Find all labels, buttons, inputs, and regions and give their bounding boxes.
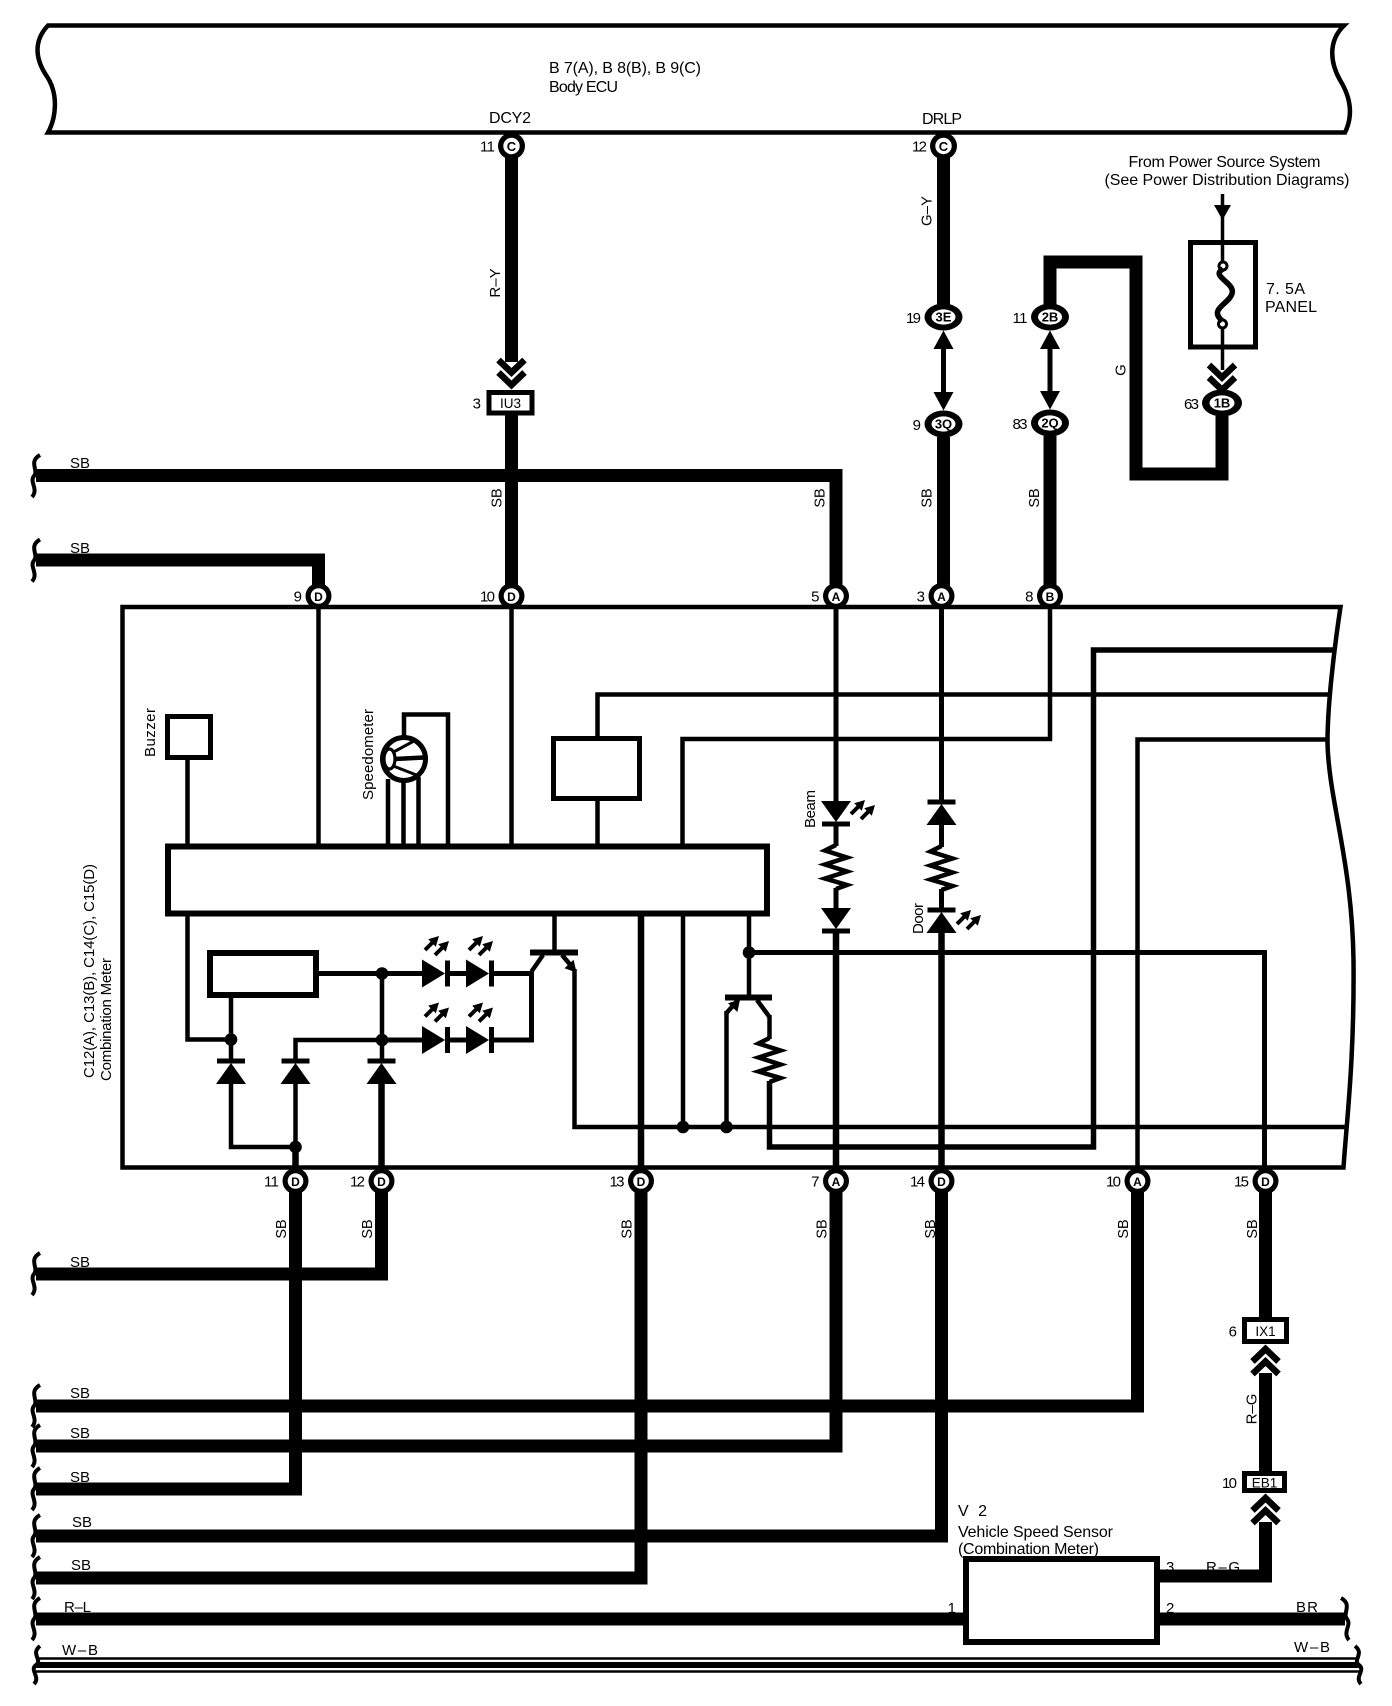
svg-text:B: B bbox=[1046, 590, 1055, 604]
svg-text:Body ECU: Body ECU bbox=[549, 79, 618, 96]
svg-text:W–B: W–B bbox=[1294, 1639, 1330, 1656]
svg-text:SB: SB bbox=[920, 488, 936, 507]
svg-text:SB: SB bbox=[1245, 1219, 1261, 1238]
wire IC bar to diode junction bbox=[188, 915, 227, 1040]
svg-text:SB: SB bbox=[490, 488, 506, 507]
svg-text:V 2: V 2 bbox=[958, 1503, 987, 1520]
junction node bbox=[743, 946, 756, 959]
wire SB pin 11 D to splice bbox=[32, 1192, 296, 1510]
svg-text:D: D bbox=[507, 590, 516, 604]
wire junction to pin 11 D bbox=[292, 1147, 299, 1170]
wire LED row2 bbox=[380, 1038, 423, 1043]
LED row1 left bbox=[422, 936, 449, 988]
svg-text:10: 10 bbox=[480, 589, 495, 606]
wire SB pin 15 D to IX1 bbox=[1245, 1192, 1266, 1319]
wire R-L to V2 pin 1 bbox=[32, 1598, 966, 1640]
svg-text:W–B: W–B bbox=[62, 1642, 98, 1659]
wire right edge to pin 10 A bbox=[1138, 740, 1328, 1169]
pin 9 D bbox=[294, 583, 332, 609]
junction connector 2Q bbox=[1013, 410, 1070, 437]
svg-text:DCY2: DCY2 bbox=[489, 110, 531, 127]
pin 7 A bbox=[811, 1168, 849, 1194]
arrow into IX1 bbox=[1253, 1349, 1279, 1374]
arrow into EB1 bbox=[1253, 1498, 1279, 1523]
svg-text:D: D bbox=[377, 1175, 386, 1189]
pin 3 A bbox=[917, 583, 955, 609]
svg-text:SB: SB bbox=[360, 1219, 376, 1238]
Body ECU bus band bbox=[38, 26, 1350, 133]
wire relay to diode junction bbox=[229, 996, 234, 1039]
internal block (upper right rectangle) bbox=[554, 739, 640, 799]
svg-text:Vehicle Speed Sensor: Vehicle Speed Sensor bbox=[958, 1524, 1114, 1541]
Door indicator lamp chain bbox=[910, 607, 981, 1170]
wire pin 8 B to IC bar bbox=[683, 607, 1051, 845]
svg-text:5: 5 bbox=[811, 589, 819, 606]
wire D1 to 11D junction bbox=[231, 1083, 293, 1147]
svg-text:(See Power Distribution Diagra: (See Power Distribution Diagrams) bbox=[1105, 172, 1350, 189]
svg-text:SB: SB bbox=[813, 488, 829, 507]
svg-text:3Q: 3Q bbox=[935, 417, 952, 432]
svg-text:SB: SB bbox=[815, 1219, 831, 1238]
junction connector 2B bbox=[1013, 304, 1070, 331]
svg-text:Beam: Beam bbox=[802, 790, 819, 828]
svg-text:SB: SB bbox=[70, 1385, 90, 1402]
svg-text:D: D bbox=[1261, 1175, 1270, 1189]
svg-text:SB: SB bbox=[70, 1254, 90, 1271]
svg-text:2: 2 bbox=[1166, 1600, 1174, 1617]
wire between row2 LEDs bbox=[448, 1038, 468, 1043]
svg-text:D: D bbox=[314, 590, 323, 604]
junction node bbox=[225, 1033, 238, 1046]
wire D2 to LED row 2 bbox=[296, 1040, 381, 1061]
svg-text:Buzzer: Buzzer bbox=[142, 708, 159, 757]
junction connector 3E bbox=[906, 304, 963, 331]
diode D2 bbox=[281, 1061, 311, 1143]
svg-text:C: C bbox=[939, 139, 949, 154]
svg-text:SB: SB bbox=[70, 1425, 90, 1442]
wire R-G from EB1 to IX1 bbox=[1244, 1373, 1266, 1471]
svg-text:3E: 3E bbox=[936, 310, 952, 325]
svg-text:1: 1 bbox=[948, 1600, 956, 1617]
connector DRLP label bbox=[922, 111, 962, 128]
svg-text:9: 9 bbox=[913, 417, 921, 434]
wire pin 10 D to IC bar bbox=[509, 607, 514, 845]
speedometer bbox=[360, 709, 426, 800]
combination meter box outline bbox=[123, 607, 1354, 1168]
svg-text:R–G: R–G bbox=[1244, 1394, 1261, 1425]
svg-text:11: 11 bbox=[1013, 310, 1028, 327]
svg-text:IX1: IX1 bbox=[1255, 1324, 1275, 1339]
junction node bbox=[376, 967, 389, 980]
diode D1 bbox=[216, 1039, 246, 1084]
arrow pair between 2B and 2Q bbox=[1040, 331, 1060, 410]
arrow pair between 3E and 3Q bbox=[934, 331, 954, 411]
svg-text:8: 8 bbox=[1025, 589, 1033, 606]
svg-text:19: 19 bbox=[906, 310, 921, 327]
svg-text:From Power Source System: From Power Source System bbox=[1129, 154, 1321, 171]
svg-text:SB: SB bbox=[72, 1514, 92, 1531]
relay block inside meter bbox=[210, 953, 316, 995]
arrow from power source into fuse bbox=[1214, 194, 1231, 240]
IC bar bbox=[168, 847, 767, 914]
junction connector IX1 bbox=[1229, 1320, 1287, 1342]
wire W-B ground bus bbox=[34, 1639, 1362, 1684]
svg-text:D: D bbox=[637, 1175, 646, 1189]
wire G-Y from DRLP to 3E bbox=[919, 157, 944, 305]
svg-text:83: 83 bbox=[1013, 416, 1028, 433]
svg-text:SB: SB bbox=[70, 1469, 90, 1486]
svg-text:3: 3 bbox=[1166, 1559, 1174, 1576]
wire IC bar to emitter bus bbox=[681, 915, 686, 1127]
svg-text:7: 7 bbox=[811, 1174, 819, 1191]
junction connector IU3 bbox=[473, 393, 532, 414]
svg-text:A: A bbox=[937, 590, 946, 604]
wire SB from 2Q to pin 8 B bbox=[1027, 436, 1050, 586]
svg-text:C: C bbox=[507, 139, 517, 154]
label Combination Meter bbox=[81, 864, 115, 1081]
svg-text:R–G: R–G bbox=[1206, 1559, 1240, 1576]
wire R-G from V2 pin 3 to EB1 bbox=[1160, 1522, 1266, 1576]
buzzer bbox=[142, 708, 211, 758]
svg-text:SB: SB bbox=[1116, 1219, 1132, 1238]
svg-text:BR: BR bbox=[1296, 1599, 1318, 1616]
svg-text:Door: Door bbox=[910, 903, 927, 934]
svg-text:SB: SB bbox=[274, 1219, 290, 1238]
pin 11 D bbox=[264, 1168, 309, 1194]
pin 8 B bbox=[1025, 583, 1063, 609]
transistor Q2 bbox=[725, 998, 772, 1018]
svg-text:15: 15 bbox=[1234, 1174, 1249, 1191]
svg-text:A: A bbox=[1133, 1175, 1142, 1189]
svg-text:EB1: EB1 bbox=[1252, 1476, 1278, 1491]
svg-text:A: A bbox=[832, 1175, 841, 1189]
fuse 7.5A PANEL bbox=[1191, 242, 1318, 370]
wire from block to right edge (torn) bbox=[598, 695, 1331, 739]
speedometer wires to IC bar bbox=[388, 715, 448, 846]
label Body ECU bbox=[549, 60, 701, 96]
svg-text:A: A bbox=[832, 590, 841, 604]
wire SB bus to pin 5 A bbox=[32, 455, 836, 586]
junction connector EB1 bbox=[1222, 1474, 1285, 1493]
svg-text:11: 11 bbox=[264, 1174, 279, 1191]
svg-text:2B: 2B bbox=[1042, 310, 1059, 325]
wire LED row2 to transistor Q1 corner bbox=[492, 1038, 535, 1043]
vehicle speed sensor V2 bbox=[958, 1503, 1157, 1642]
wire IC bar to Q2 and pin 15 D bbox=[749, 915, 1265, 1170]
junction node bbox=[720, 1121, 733, 1134]
svg-text:2Q: 2Q bbox=[1041, 416, 1058, 431]
svg-text:SB: SB bbox=[923, 1219, 939, 1238]
pin 10 A bbox=[1106, 1168, 1151, 1194]
svg-text:3: 3 bbox=[917, 589, 925, 606]
pin 14 D bbox=[910, 1168, 955, 1194]
connector DCY2 label bbox=[489, 110, 531, 127]
LED row2 left bbox=[422, 1003, 449, 1055]
pin 12 D bbox=[350, 1168, 395, 1194]
pin 11 C (Body ECU DCY2) bbox=[480, 133, 525, 160]
arrow into IU3 bbox=[499, 360, 525, 385]
wire from block to IC bar bbox=[595, 798, 600, 845]
svg-text:D: D bbox=[937, 1175, 946, 1189]
svg-text:SB: SB bbox=[70, 540, 90, 557]
pin 12 C (Body ECU DRLP) bbox=[912, 133, 957, 160]
transistor Q1 bbox=[530, 915, 578, 973]
svg-text:(Combination Meter): (Combination Meter) bbox=[958, 1541, 1099, 1558]
wire pin 9 D to IC bar bbox=[316, 607, 321, 845]
junction node bbox=[376, 1034, 389, 1047]
wire IC bar to pin 13 D bbox=[638, 915, 645, 1170]
arrow into 1B bbox=[1209, 365, 1235, 390]
wire SB pin 12 D to splice bbox=[32, 1192, 382, 1295]
svg-text:B 7(A), B 8(B), B 9(C): B 7(A), B 8(B), B 9(C) bbox=[549, 60, 701, 77]
junction connector 1B bbox=[1184, 390, 1242, 417]
svg-text:R–Y: R–Y bbox=[487, 268, 504, 297]
LED row2 right bbox=[466, 1003, 493, 1055]
label From Power Source System bbox=[1105, 154, 1350, 189]
svg-text:13: 13 bbox=[610, 1174, 625, 1191]
svg-text:1B: 1B bbox=[1214, 396, 1231, 411]
junction connector 3Q bbox=[913, 411, 963, 438]
wire relay output to LED row 1 bbox=[316, 971, 423, 976]
svg-text:R–L: R–L bbox=[64, 1599, 91, 1616]
wire between row1 LEDs bbox=[448, 971, 468, 976]
wire BR from V2 pin 2 bbox=[1157, 1598, 1349, 1640]
junction node bbox=[289, 1141, 302, 1154]
wire SB bus to pin 9 D bbox=[32, 540, 319, 587]
svg-text:SB: SB bbox=[620, 1219, 636, 1238]
resistor in Q2 emitter bbox=[759, 1015, 781, 1082]
wire SB pin 14 D to splice bbox=[32, 1192, 942, 1557]
wire SB pin 10 A to splice bbox=[32, 1192, 1138, 1427]
wire buzzer to IC bar bbox=[185, 760, 190, 845]
wire D3 to pin 12 D bbox=[378, 1084, 385, 1170]
svg-text:Combination Meter: Combination Meter bbox=[98, 958, 115, 1081]
wire SB pin 13 D to splice bbox=[32, 1192, 641, 1599]
wire SB from 3Q to pin 3 A bbox=[920, 437, 944, 586]
wire LED row1 to transistor Q1 bbox=[492, 974, 532, 1041]
wire Q1 emitter to bus bbox=[575, 969, 1347, 1127]
pin 5 A bbox=[811, 583, 849, 609]
svg-text:IU3: IU3 bbox=[500, 396, 521, 411]
svg-text:12: 12 bbox=[912, 139, 927, 156]
svg-text:SB: SB bbox=[71, 1557, 91, 1574]
Beam indicator lamp chain bbox=[802, 607, 875, 1170]
wire R-Y from DCY2 to IU3 bbox=[487, 157, 512, 362]
svg-text:7. 5A: 7. 5A bbox=[1266, 281, 1305, 298]
svg-text:12: 12 bbox=[350, 1174, 365, 1191]
svg-text:6: 6 bbox=[1229, 1324, 1237, 1341]
wire SB pin 7 A to splice bbox=[32, 1192, 836, 1467]
svg-text:10: 10 bbox=[1222, 1475, 1237, 1492]
svg-text:D: D bbox=[291, 1175, 300, 1189]
svg-text:3: 3 bbox=[473, 396, 481, 413]
svg-text:DRLP: DRLP bbox=[922, 111, 962, 128]
svg-text:SB: SB bbox=[1027, 488, 1043, 507]
svg-text:9: 9 bbox=[294, 589, 302, 606]
svg-text:PANEL: PANEL bbox=[1265, 299, 1317, 316]
svg-text:Speedometer: Speedometer bbox=[360, 709, 377, 800]
svg-text:10: 10 bbox=[1106, 1174, 1121, 1191]
wire resistor to right edge (torn) bbox=[770, 650, 1335, 1147]
wire Q2 base to emitter bus bbox=[724, 1011, 729, 1127]
svg-text:C12(A), C13(B), C14(C), C15(D): C12(A), C13(B), C14(C), C15(D) bbox=[81, 864, 98, 1078]
wire SB from IU3 to pin 10 D bbox=[490, 416, 512, 587]
svg-text:14: 14 bbox=[910, 1174, 925, 1191]
wire G from 1B to 2B bbox=[1050, 262, 1222, 474]
pin 15 D bbox=[1234, 1168, 1279, 1194]
svg-text:SB: SB bbox=[70, 455, 90, 472]
wire junction down to D3 bbox=[380, 974, 385, 1062]
pin 13 D bbox=[610, 1168, 655, 1194]
svg-text:11: 11 bbox=[480, 139, 495, 156]
diode D3 bbox=[367, 1061, 397, 1084]
junction node bbox=[677, 1121, 690, 1134]
LED row1 right bbox=[466, 936, 493, 988]
pin 10 D bbox=[480, 583, 525, 609]
svg-text:G–Y: G–Y bbox=[919, 196, 936, 226]
svg-text:G: G bbox=[1113, 364, 1130, 376]
svg-text:63: 63 bbox=[1184, 396, 1199, 413]
